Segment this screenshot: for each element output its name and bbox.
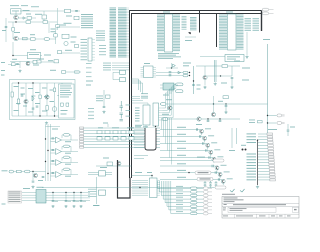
audio junction [32, 171, 33, 172]
transistor Q9 [168, 106, 172, 110]
plug junction 2 [267, 122, 268, 123]
connector gnd vertical [257, 140, 259, 186]
resistor R7b [74, 16, 79, 19]
CPU pin stubs [127, 8, 130, 57]
op-amp U4 feedback wire [62, 146, 71, 151]
connector J1 designator [268, 129, 277, 130]
title header tiny [222, 193, 235, 196]
wire right feed vertical [57, 8, 59, 30]
ROM designator [163, 12, 170, 13]
fan plug 8 [204, 212, 213, 215]
resistor R1 [27, 17, 32, 20]
fan plug 1 [204, 187, 213, 190]
fan resistor 4 [191, 198, 198, 201]
label Q2 [14, 32, 20, 33]
capacitor C1 [5, 27, 8, 28]
drive row label 2 [177, 134, 186, 135]
title rev mark [294, 209, 297, 210]
junction base rail [15, 21, 16, 22]
c22 drop [225, 104, 227, 111]
fan plug 4 [204, 198, 213, 201]
right drops col [232, 128, 237, 148]
op-amp U4 [56, 149, 62, 155]
net label near vertical [263, 39, 270, 40]
drive emitter drop 2 [204, 140, 206, 142]
op-amp U5 [56, 160, 62, 166]
relay K1 label right [23, 9, 30, 12]
bus taps right 1 [132, 79, 139, 90]
capacitor C23 [207, 120, 210, 121]
fan label 3 [176, 193, 183, 194]
DC-DC label [37, 187, 44, 188]
ROM select junction [189, 32, 190, 33]
labels right of caps [126, 105, 131, 117]
resistor array RN1 [88, 38, 92, 61]
PSU vertical wire 7 [54, 83, 56, 116]
latch U15 body [153, 103, 159, 126]
keypad label c [127, 127, 134, 128]
net label stack [245, 18, 260, 31]
PSU diode D3 [31, 96, 35, 101]
op-amp U3 [56, 137, 62, 143]
drive emitter drop 5 [213, 161, 215, 163]
label node net [64, 23, 72, 24]
latch feed wires [132, 101, 149, 106]
comp bottom right tile1 [58, 51, 62, 54]
fan wire 5 [165, 181, 190, 203]
bus dot 4 [47, 173, 48, 174]
drive label r 3 [211, 142, 217, 143]
fan label 8 [176, 211, 183, 212]
label D5b [183, 65, 189, 66]
CPU lower fan labels [103, 63, 111, 71]
strip label C [39, 59, 44, 60]
audio drop [32, 172, 34, 181]
power plug P2 [263, 12, 274, 15]
label net2 [60, 25, 66, 26]
decoder text [227, 56, 240, 57]
fan resistor 8 [191, 212, 198, 215]
connector J1 stub wires [258, 134, 270, 180]
strip box B [12, 63, 16, 66]
data bus vertical left [129, 10, 131, 178]
PSU label a [14, 86, 19, 87]
net flag wire 2 [42, 187, 215, 189]
opamp col top label [52, 129, 58, 130]
PSU junction 3 [18, 82, 19, 83]
PSU cap extra2 [36, 106, 39, 107]
under-CPU cap box [106, 95, 111, 98]
q9 vertical right [213, 96, 215, 113]
ROM right pins [173, 15, 180, 52]
fan label 1 [176, 186, 183, 187]
audio wire [14, 171, 46, 173]
keypad small boxes row1 [97, 131, 134, 134]
wire Q2 row [18, 38, 56, 40]
PSU reg cap C9 [61, 103, 64, 106]
speaker plug J2 [277, 114, 285, 117]
ground q10 [224, 111, 227, 114]
op-amp U5 input wires [51, 161, 56, 164]
note text line 3 [31, 5, 39, 8]
header U13 pins [134, 130, 145, 148]
title doc box [228, 207, 276, 212]
plug junction 1 [267, 115, 268, 116]
fan wire 7 [169, 181, 190, 210]
wire between ICs [185, 36, 196, 38]
label amp b [221, 83, 227, 84]
label left edge C [1, 62, 5, 63]
wire Q1 collector [15, 11, 17, 15]
drive row cap 5 [209, 156, 210, 159]
label C1 [2, 30, 6, 31]
bus dot 2 [47, 150, 48, 151]
diode D1 [23, 17, 26, 19]
PSU junction 2 [39, 115, 40, 116]
power supply block border [10, 80, 76, 120]
drive label r 4 [214, 149, 220, 150]
op-amp U6 input wires [51, 173, 56, 176]
PSU reg text 2 [60, 87, 72, 90]
wire left rail [5, 18, 7, 42]
bus drop to ROM [199, 11, 201, 33]
capacitor C5 [75, 10, 78, 11]
latch label column [135, 108, 140, 122]
fan wire 2 [159, 181, 190, 192]
jumper table [8, 191, 22, 203]
decoupling drop 4 [80, 193, 82, 201]
title rev box [293, 207, 299, 212]
PSU resistor R11 [46, 106, 48, 111]
fan resistor 3 [191, 194, 198, 197]
drive transistor Q19 [218, 172, 222, 176]
under-CPU vertical [103, 90, 105, 106]
xtal drop [96, 177, 98, 204]
audio resistor R13 [25, 170, 31, 173]
drive row cap 7 [215, 171, 216, 174]
title size cell [223, 208, 226, 211]
op-amp U5 label [65, 164, 71, 165]
resistor R7 [56, 25, 60, 28]
drive row label 1 [177, 127, 186, 128]
decoder text2 [227, 58, 236, 61]
IC U2 body [28, 52, 41, 59]
top wires bc [132, 156, 153, 179]
inductor L1 [62, 34, 69, 38]
strip wire 3 [30, 61, 54, 63]
drive row label 5 [177, 155, 186, 156]
audio connector [9, 170, 14, 173]
PSU vertical wire 6 [46, 83, 48, 116]
label Q1 value [35, 14, 42, 15]
drive row cap 3 [203, 142, 204, 145]
bottom header rows [132, 181, 148, 196]
capacitor C20 [103, 107, 106, 108]
label R1 value [26, 14, 31, 15]
PSU label k2 [21, 88, 25, 89]
power rail 1 [22, 192, 90, 194]
bus dot 3 [45, 161, 46, 162]
resistor R16 [176, 83, 184, 86]
junction q9 [213, 103, 214, 104]
audio label 2 [38, 180, 43, 181]
PSU bottom rail [12, 115, 72, 117]
fan resistor 6 [191, 205, 198, 208]
title block border [222, 197, 299, 219]
power rail 2 [22, 194, 90, 196]
op-amp U3 input cap [52, 138, 55, 139]
plug wire 2 [268, 122, 277, 124]
decoupling label 4 [83, 200, 87, 203]
decoupling ground 3 [72, 205, 75, 208]
capacitor C21 [231, 78, 234, 79]
bus drop right [261, 11, 263, 32]
label mid a [51, 29, 57, 30]
drive label r 5 [217, 156, 223, 157]
crystal X3 [99, 190, 106, 195]
net flag wire 1 [160, 160, 213, 162]
resistor R8 [62, 71, 66, 74]
ROM U8 body [165, 14, 173, 52]
strip label B [12, 59, 17, 60]
fan plug 7 [204, 209, 213, 212]
drive transistor Q18 [215, 166, 219, 170]
net flag box 2 [197, 177, 213, 181]
keypad connector body [80, 127, 84, 148]
connector J1 body [267, 133, 275, 181]
drive transistor Q20 [221, 179, 225, 183]
PSU pot RV1 [52, 107, 57, 112]
fan wire 4 [163, 181, 190, 199]
op-amp U6 label [65, 176, 71, 177]
decoupling ground 1 [51, 205, 54, 208]
pad P4 [245, 149, 247, 151]
op-amp U5 feedback wire [62, 157, 71, 162]
wire q4 up [20, 62, 28, 69]
amp row wire [207, 75, 232, 77]
title block divider 3 [222, 213, 299, 215]
label amp a [234, 61, 240, 62]
connector ground sym [256, 186, 259, 189]
resistor R19 [161, 103, 167, 106]
drive row cap 2 [200, 135, 201, 138]
drive emitter drop 6 [216, 170, 218, 172]
address bus top horizontal [132, 13, 262, 15]
c23 c24 drops [208, 119, 220, 120]
PSU ground [45, 122, 48, 125]
cap c25 label [290, 127, 295, 128]
transistor Q3 [64, 41, 68, 45]
drive row cap 8 [218, 178, 219, 181]
drive row wire 1 [160, 129, 200, 131]
audio capacitor C11 [32, 181, 35, 182]
net flag label 1 [197, 157, 205, 158]
crystal X1 boxes [120, 70, 126, 81]
drive row7 junction [188, 172, 189, 173]
junction q10 [225, 103, 226, 104]
wire to comparator [58, 10, 81, 12]
resistor R18 [222, 65, 228, 68]
bottom caps trio [204, 181, 218, 188]
bus taps right 3 [132, 83, 143, 94]
fan wire 1 [158, 181, 191, 188]
PSU label i [28, 112, 33, 113]
net flag box 2 text [200, 178, 211, 179]
power junction 4 [80, 192, 81, 193]
latch nested route wires [163, 85, 179, 118]
cap c25 drop [287, 124, 289, 136]
resistor R22 [258, 121, 263, 123]
ground G1 [18, 70, 21, 73]
capacitor C4 box [65, 9, 71, 12]
audio capacitor C12 [42, 177, 45, 178]
label between ICs [185, 40, 192, 41]
drive label r 8 [227, 178, 233, 179]
RN1 wires right [92, 40, 95, 61]
label left edge A [1, 70, 5, 71]
PSU label extra3 [44, 96, 49, 97]
power junction 2 [65, 192, 66, 193]
PSU transistor Q6 [45, 95, 49, 99]
label q9 [166, 99, 172, 100]
net stack ground [245, 56, 248, 59]
decoupling label 1 [55, 200, 59, 203]
ROM note text [158, 53, 181, 59]
C21 drop [231, 79, 233, 86]
drive row wire 5 [160, 157, 212, 159]
decoupling drop 2 [65, 193, 67, 201]
title text title [233, 204, 286, 205]
capacitor C24 [219, 120, 222, 121]
crystal Y1 wire [43, 11, 45, 22]
op-amp U6 feedback resistor [64, 168, 70, 171]
PSU label g [58, 95, 63, 96]
op-amp U5 feedback resistor [64, 156, 70, 159]
xtal wire row [88, 171, 112, 173]
fan wire 3 [161, 181, 190, 196]
decoupling drop 1 [52, 193, 54, 201]
drive row wire 2 [160, 136, 203, 138]
Q8 ground [203, 86, 206, 89]
PSU transistor Q5 [24, 99, 28, 103]
fan wire out 6 [197, 205, 203, 207]
fan plug 5 [204, 201, 213, 204]
title check flag 2 [240, 189, 245, 192]
right drops label [229, 150, 235, 151]
net flag box 1 [195, 171, 211, 175]
drive row wire 8 [160, 179, 222, 181]
drive transistor Q17 [212, 157, 216, 161]
PSU reg text 3 [60, 89, 70, 92]
labels right col small [99, 45, 106, 55]
PSU capacitor C7 [39, 95, 41, 99]
thick gnd trace vertical [117, 160, 119, 198]
drive transistor Q13 [200, 129, 204, 133]
PSU reg cap C10 [66, 103, 69, 106]
ROM left pins [157, 15, 164, 52]
header U13 outline [145, 128, 156, 150]
crystal X2 label [100, 167, 107, 168]
label node v [197, 85, 201, 86]
fan resistor 7 [191, 209, 198, 212]
wire to right section [156, 73, 160, 76]
resistor R5 [31, 38, 36, 41]
RAM right pins [237, 15, 244, 50]
fan label 6 [176, 204, 183, 205]
logic U12 body [144, 66, 154, 78]
PSU cap C8 [53, 88, 55, 92]
strip wire 2 [8, 64, 20, 66]
wire R1 to node [32, 17, 36, 19]
osc label [103, 158, 109, 159]
title bottom row text [223, 215, 291, 218]
connector J1 net labels lower [247, 154, 257, 181]
PSU label b [21, 94, 26, 95]
wire strip right [66, 71, 80, 73]
drive label r 6 [221, 165, 227, 166]
decoupling drop 3 [73, 193, 75, 201]
drive emitter drop 8 [222, 183, 224, 185]
PSU vertical wire 4 [32, 83, 34, 116]
op-amp U3 feedback wire [62, 135, 71, 140]
fan resistor 2 [191, 191, 198, 194]
capacitor C22 [225, 106, 228, 107]
audio resistor R12 [17, 170, 22, 173]
label q11 [196, 124, 202, 125]
note text line 2 [21, 4, 28, 7]
amp rail [196, 65, 240, 67]
PSU cap C8b [32, 108, 35, 109]
power rail 3 [22, 197, 90, 199]
bus drop to RAM [216, 14, 218, 48]
label node v2 [197, 89, 201, 90]
analog bus vertical 3 [50, 124, 52, 181]
label strip net [50, 70, 56, 71]
opamp col top wire [46, 126, 61, 128]
net label lower b [86, 85, 91, 86]
op-amp U3 feedback resistor [64, 134, 70, 137]
decoupling label 2 [68, 200, 72, 203]
fan wire out 8 [197, 213, 203, 215]
under-CPU labels [96, 96, 103, 102]
drive emitter drop 3 [207, 147, 209, 149]
PSU vertical wire 3 [25, 83, 27, 116]
op-amp U6 [56, 172, 62, 178]
PSU label l2 [35, 92, 40, 93]
ROM bus stubs [190, 17, 197, 30]
CPU pin names [118, 8, 127, 58]
PSU junction 4 [54, 115, 55, 116]
PSU label j2 [42, 111, 47, 112]
ROM right outer labels [182, 16, 187, 30]
diode D2 box [54, 60, 59, 63]
op-amp U4 input wires [51, 150, 56, 153]
cluster labels right [249, 120, 255, 124]
fan wire out 3 [197, 195, 203, 197]
drive row wire 6 [160, 165, 216, 167]
wire bottom right tile1 [62, 52, 80, 54]
PSU label d [35, 103, 40, 104]
wire Q1 output [18, 17, 23, 19]
strip box C [33, 60, 37, 63]
data bus top horizontal [129, 10, 262, 12]
relay K1 box [11, 9, 22, 14]
op-amp U6 feedback wire [62, 169, 71, 174]
fan label 7 [176, 208, 183, 209]
resistor R21 [162, 118, 168, 121]
wire mid vert2 [48, 23, 50, 33]
logic U12 label [144, 63, 150, 64]
